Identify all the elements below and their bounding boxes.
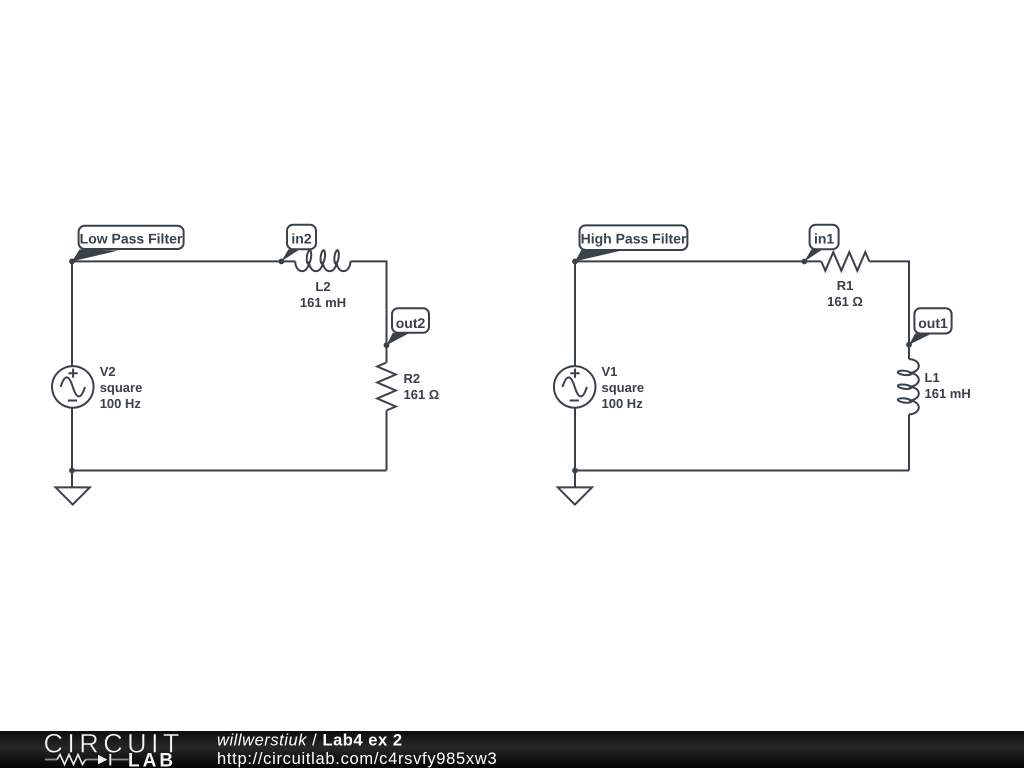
wire from L2 to top-right corner down to resistor R2 <box>350 261 386 362</box>
svg-text:Low Pass Filter: Low Pass Filter <box>80 231 183 247</box>
resistor R2 <box>377 363 396 411</box>
svg-text:High Pass Filter: High Pass Filter <box>581 231 687 247</box>
wire left rail top right circuit (node to V1) <box>574 261 576 366</box>
label R1 value <box>827 278 863 309</box>
resistor R1 <box>821 252 869 271</box>
CircuitLab logo wire right <box>111 759 129 761</box>
CircuitLab logo diode bar <box>109 754 111 766</box>
svg-text:square: square <box>100 380 143 395</box>
flag in1 <box>804 225 838 262</box>
svg-text:willwerstiuk / Lab4 ex 2: willwerstiuk / Lab4 ex 2 <box>217 731 403 749</box>
flag out1 <box>909 308 952 345</box>
flag out2 <box>387 308 430 345</box>
node in1 (junction dot) <box>802 259 808 265</box>
svg-text:161 Ω: 161 Ω <box>827 294 863 309</box>
node in2 (junction dot) <box>279 259 285 265</box>
CircuitLab logo diode triangle <box>98 755 107 765</box>
wire left rail top (node to V2) <box>71 261 73 366</box>
svg-text:LAB: LAB <box>128 750 176 768</box>
svg-text:161 mH: 161 mH <box>300 295 346 310</box>
svg-text:in2: in2 <box>291 231 311 247</box>
svg-text:100 Hz: 100 Hz <box>100 396 142 411</box>
CircuitLab logo wire left <box>45 759 57 761</box>
svg-text:R2: R2 <box>404 371 421 386</box>
CircuitLab logo resistor zigzag <box>57 755 86 765</box>
svg-text:http://circuitlab.com/c4rsvfy9: http://circuitlab.com/c4rsvfy985xw3 <box>217 750 497 768</box>
wire from R1 to top-right corner down to inductor L1 <box>869 261 909 359</box>
wire L1 bottom to bottom-right corner <box>908 414 910 470</box>
svg-text:161 Ω: 161 Ω <box>404 387 440 402</box>
wire bottom horizontal <box>72 470 387 472</box>
label L2 value <box>300 279 346 310</box>
label L1 value <box>925 370 971 401</box>
wire left rail bottom right circuit (V1 to ground node) <box>574 408 576 471</box>
svg-text:100 Hz: 100 Hz <box>602 396 644 411</box>
svg-text:out1: out1 <box>918 315 948 331</box>
flag High Pass Filter <box>575 225 687 261</box>
wire bottom horizontal right circuit <box>575 470 909 472</box>
node out1 (junction dot) <box>906 342 912 348</box>
svg-text:R1: R1 <box>837 278 854 293</box>
svg-text:in1: in1 <box>814 231 834 247</box>
CircuitLab logo wire middle <box>86 759 99 761</box>
wire top horizontal (V1+ to resistor R1) <box>575 260 821 262</box>
svg-text:161 mH: 161 mH <box>925 386 971 401</box>
node ground right (junction dot) <box>572 468 578 474</box>
svg-text:out2: out2 <box>396 315 426 331</box>
label R2 value <box>404 371 440 402</box>
svg-text:L1: L1 <box>925 370 940 385</box>
ground <box>56 471 90 505</box>
svg-text:V2: V2 <box>100 364 116 379</box>
voltage source V1 <box>554 366 596 408</box>
node V2 top (junction dot) <box>69 259 75 265</box>
ground right <box>558 471 592 505</box>
flag in2 <box>281 225 316 262</box>
wire left rail bottom (V2 to ground node) <box>71 408 73 471</box>
svg-text:L2: L2 <box>315 279 330 294</box>
wire R2 bottom to bottom-right corner <box>386 411 388 471</box>
inductor L1 <box>898 359 919 414</box>
flag Low Pass Filter <box>72 226 184 262</box>
svg-text:square: square <box>602 380 645 395</box>
label V1 value <box>602 364 645 411</box>
wire top-left horizontal (V2+ to inductor L2) <box>72 260 295 262</box>
node out2 (junction dot) <box>384 342 390 348</box>
voltage source V2 <box>52 366 94 408</box>
node ground left (junction dot) <box>69 468 75 474</box>
node V1 top (junction dot) <box>572 259 578 265</box>
footer bar <box>0 731 1024 768</box>
label V2 value <box>100 364 143 411</box>
svg-text:V1: V1 <box>602 364 618 379</box>
inductor L2 <box>295 250 350 271</box>
